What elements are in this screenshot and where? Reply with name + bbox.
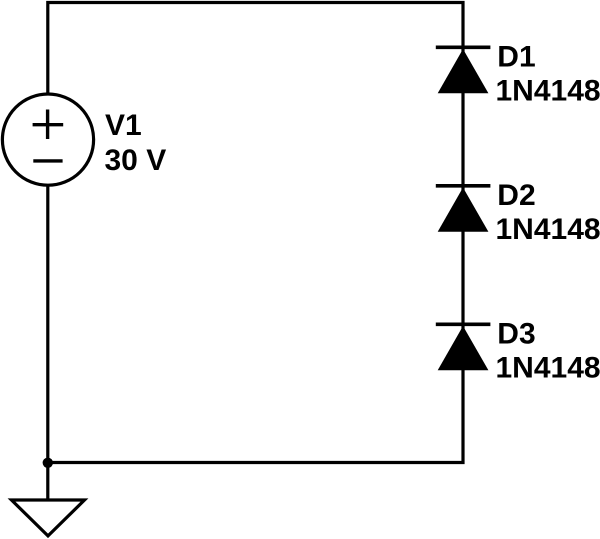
svg-text:1N4148: 1N4148 [496, 352, 600, 385]
svg-text:D2: D2 [497, 179, 535, 212]
svg-text:30 V: 30 V [105, 144, 167, 177]
svg-text:1N4148: 1N4148 [496, 75, 600, 108]
svg-text:D1: D1 [497, 41, 535, 74]
svg-text:1N4148: 1N4148 [496, 213, 600, 246]
svg-text:V1: V1 [105, 109, 142, 142]
svg-text:D3: D3 [497, 318, 535, 351]
